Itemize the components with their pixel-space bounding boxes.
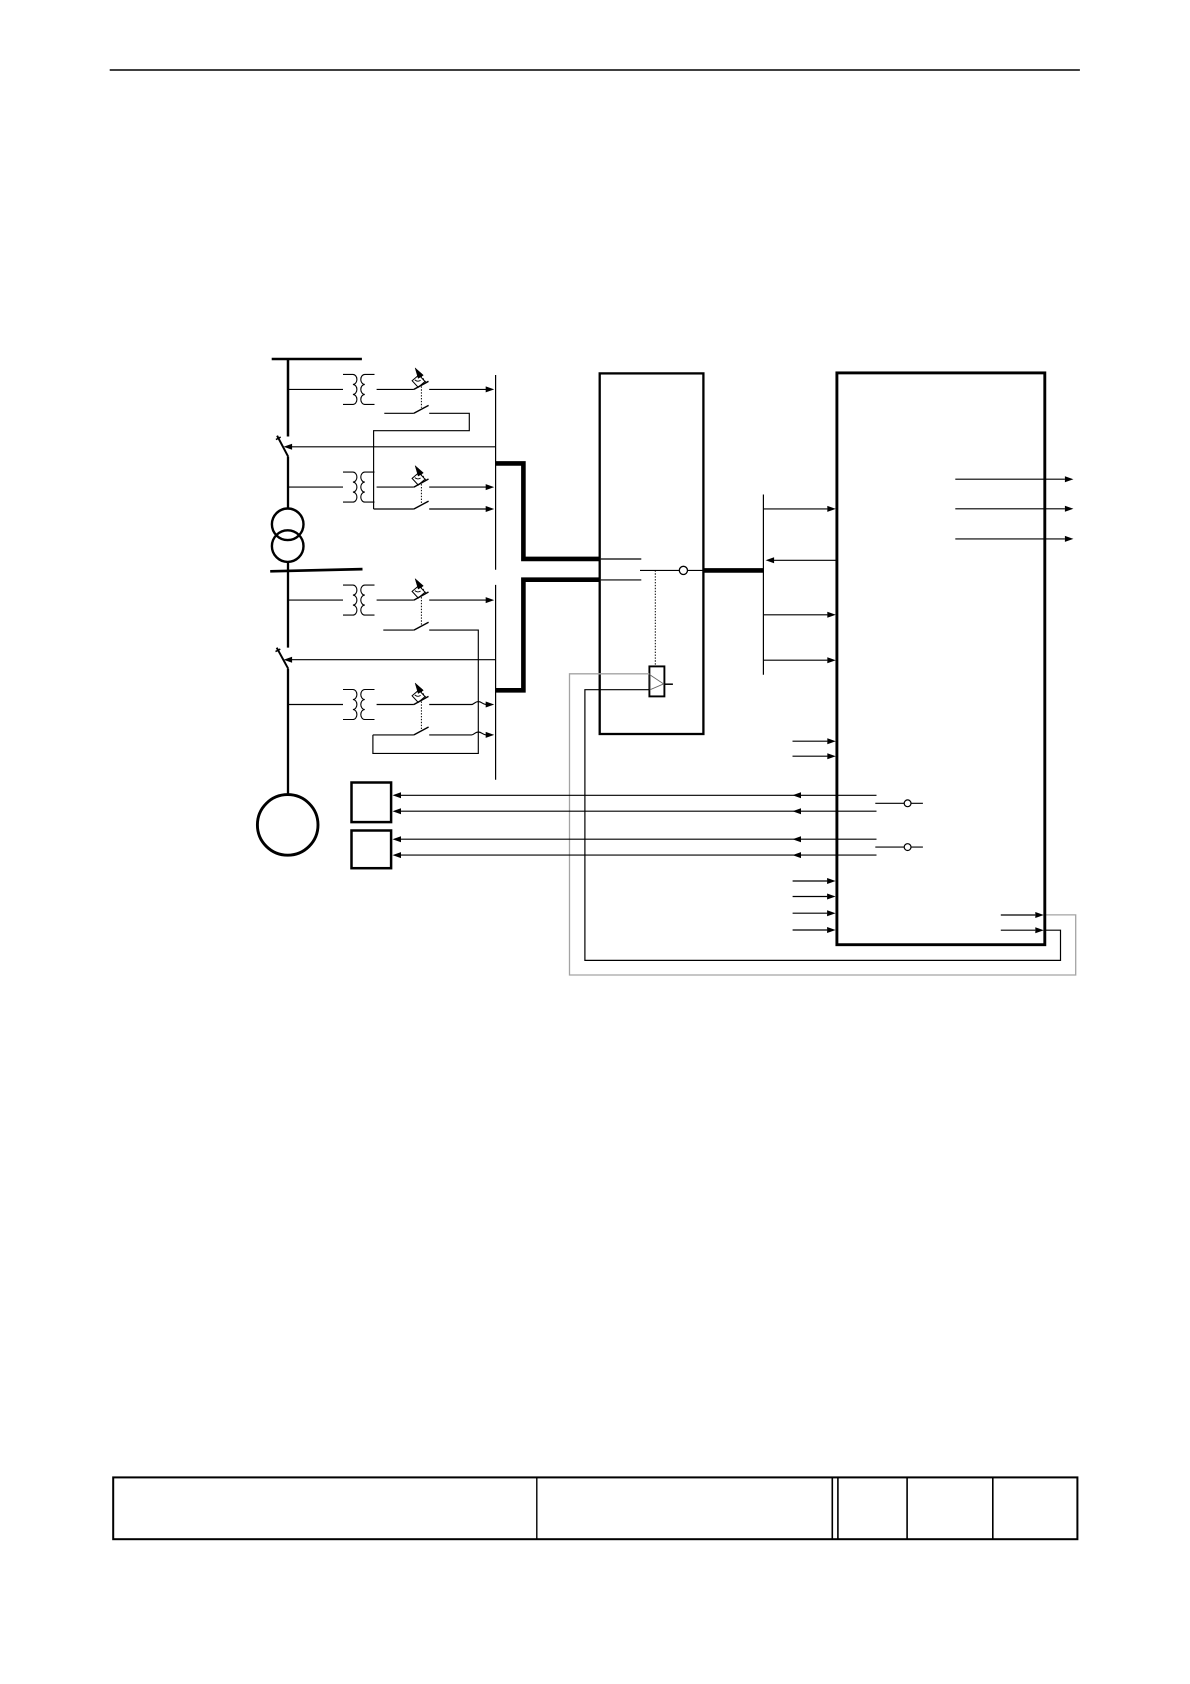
test switch TS2 (420, 484, 422, 503)
wire U2 to indicator S1 line a (400, 794, 876, 796)
busbar section 2 (270, 569, 362, 571)
current transformer CT3 (288, 599, 343, 601)
wire trip command to breaker Q2 (286, 659, 496, 661)
wire trip command to breaker Q1 (286, 446, 496, 448)
circuit breaker Q1 (276, 436, 288, 457)
wire breaker Q1 to transformer T1 (287, 457, 289, 509)
test switch TS3 (420, 597, 422, 625)
test switch TS1 (420, 386, 422, 407)
contact K1 (output contact with triangle) (649, 666, 664, 696)
wire black feedback loop (585, 690, 1061, 961)
wire measuring bus (current return) (496, 580, 600, 691)
protection device block U2 (837, 373, 1045, 945)
wire binary input 3 (793, 880, 828, 882)
wire transformer T1 to busbar section 2 (287, 562, 289, 571)
node measuring circle (679, 566, 687, 574)
wire breaker Q2 to generator G1 (287, 669, 289, 795)
current transformer CT1 (288, 388, 343, 390)
wire marshalling to device row 2 (764, 614, 827, 616)
wire marshalling to device row 3 (764, 659, 827, 661)
wire CT2 return to terminal strip (374, 508, 414, 510)
wire CT1 secondary to terminal strip (429, 388, 486, 390)
wire dashed actuation link in U1 (654, 570, 656, 666)
generator G1 (257, 795, 318, 856)
wire contact K1 output stub (664, 683, 673, 685)
wire U2 internal output to gray loop (1001, 914, 1036, 916)
wire feeder vertical (busbar1 to breaker Q1) (287, 359, 290, 437)
wire binary input 1 (793, 740, 828, 742)
wire U2 output signal 3 (955, 538, 1065, 540)
wire binary input 5 (793, 912, 828, 914)
test point TP2 (875, 846, 923, 848)
wire CT1 return path (384, 412, 414, 414)
header rule (110, 69, 1080, 71)
wire U1 input row 2 (601, 579, 642, 581)
wire measuring bus (current in) (496, 463, 600, 559)
node terminal strip (CT side) (495, 375, 497, 570)
wire binary input 4 (793, 896, 828, 898)
wire U2 to indicator S2 line b (400, 854, 876, 856)
wire U1 input row 1 (601, 558, 642, 560)
indicator box S2 (352, 831, 392, 869)
wire CT4 return to terminal strip (hop over return) (373, 734, 414, 736)
wire U2 internal output to black loop (1001, 929, 1036, 931)
wire device to marshalling (reverse row) (774, 559, 837, 561)
transformer T1 (two-winding) (272, 509, 304, 562)
wire U2 output signal 2 (955, 508, 1065, 510)
wire thick link U1 to marshalling strip (704, 568, 764, 573)
wire U2 output signal 1 (955, 478, 1065, 480)
indicator box S1 (352, 783, 392, 823)
node marshalling strip (relay to device) (762, 495, 764, 675)
circuit breaker Q2 (276, 648, 289, 669)
busbar section 1 (272, 358, 362, 361)
wire binary input 2 (793, 755, 828, 757)
title block table (113, 1477, 1077, 1539)
wire CT2 secondary to terminal strip (429, 486, 486, 488)
wire CT3 secondary to terminal strip (429, 599, 486, 601)
relay block U1 (600, 373, 704, 734)
current transformer CT4 (288, 704, 343, 706)
wire busbar2 to breaker Q2 (287, 570, 289, 648)
wire CT4 secondary to terminal strip (hop over return) (429, 702, 486, 705)
wire U2 to indicator S1 line b (400, 810, 876, 812)
current transformer CT2 (288, 486, 343, 488)
wire U2 to indicator S2 line a (400, 838, 876, 840)
wire binary input 6 (793, 929, 828, 931)
wire CT3 return path (383, 629, 414, 631)
wire gray feedback loop (570, 674, 1076, 975)
test switch TS4 (420, 702, 422, 730)
test point TP1 (875, 802, 923, 804)
wire U1 measuring output (640, 569, 703, 571)
wire marshalling to device row 1 (764, 508, 827, 510)
